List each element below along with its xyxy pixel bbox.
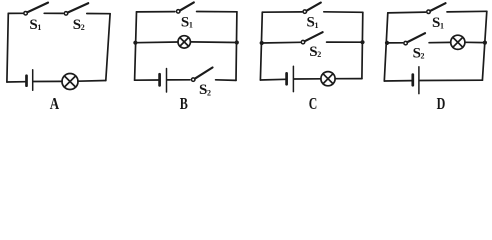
wire D middle-far-right [465, 41, 485, 43]
wire B left side [135, 12, 137, 80]
svg-text:S1: S1 [307, 15, 319, 31]
switch S1 (circuit B) pivot [176, 10, 180, 14]
node B mid-left junction [133, 41, 137, 45]
lamp L (circuit A) circle [62, 74, 78, 90]
svg-text:A: A [50, 94, 59, 112]
switch S1 (circuit D) blade [430, 3, 445, 11]
lamp L (circuit C) cross [323, 74, 333, 84]
lamp L (circuit B) circle [178, 36, 190, 48]
battery (circuit B) negative short plate [158, 74, 161, 85]
wire D bottom-left [384, 80, 411, 82]
wire C bottom-right [335, 78, 362, 80]
battery (circuit D) positive long plate [418, 67, 420, 94]
switch S2 (circuit A) pivot [64, 12, 68, 16]
svg-text:S2: S2 [199, 82, 211, 98]
wire A right side [106, 14, 110, 81]
battery (circuit C) negative short plate [285, 73, 288, 84]
wire A top-right [87, 13, 110, 15]
wire D middle-right [429, 41, 451, 43]
wire B bottom-right [216, 79, 236, 82]
wire A top-mid [44, 12, 63, 14]
lamp L (circuit D) cross [453, 37, 463, 47]
wire A top-left [8, 12, 23, 14]
svg-text:S2: S2 [309, 44, 321, 60]
svg-text:S2: S2 [73, 17, 85, 33]
svg-text:C: C [309, 94, 318, 112]
node D mid-right junction [483, 41, 487, 45]
wire D bottom-right [420, 79, 483, 81]
wire C middle-right [327, 41, 363, 43]
wire D top-left [388, 11, 426, 14]
lamp L (circuit C) circle [321, 72, 335, 86]
switch S2 (circuit D) blade [407, 33, 425, 42]
switch S2 (circuit B) blade [195, 68, 213, 79]
switch S2 (circuit D) pivot [404, 41, 408, 45]
lamp L (circuit B) cross [180, 38, 189, 47]
wire C middle-left [262, 41, 301, 44]
node B mid-right junction [235, 40, 239, 44]
battery (circuit B) positive long plate [166, 69, 168, 93]
switch S2 (circuit C) pivot [301, 40, 305, 44]
wire A bottom-left [7, 81, 26, 83]
svg-text:S1: S1 [181, 14, 193, 30]
switch S1 (circuit B) blade [180, 2, 194, 10]
wire D top-right [447, 10, 487, 13]
svg-text:B: B [180, 94, 188, 112]
battery (circuit C) positive long plate [292, 66, 294, 91]
wire B bottom-left [135, 79, 159, 81]
switch S1 (circuit A) blade [27, 3, 48, 13]
node C mid-right junction [360, 40, 364, 44]
switch S1 (circuit C) blade [307, 3, 321, 11]
battery (circuit A) negative short plate [25, 76, 28, 86]
switch S1 (circuit A) pivot [24, 11, 28, 15]
node C mid-left junction [260, 41, 264, 45]
switch S2 (circuit A) blade [68, 3, 88, 12]
switch S2 (circuit C) blade [305, 32, 323, 41]
switch S1 (circuit D) pivot [427, 10, 431, 14]
wire C bottom-left [260, 78, 285, 81]
battery (circuit A) positive long plate [32, 70, 34, 91]
wire D left side [384, 13, 388, 81]
wire A left side [7, 13, 8, 82]
wire D middle-left [387, 42, 403, 44]
wire C right side [361, 12, 364, 78]
svg-text:D: D [437, 94, 446, 112]
wire B middle-right [190, 41, 236, 44]
svg-text:S2: S2 [413, 45, 425, 61]
wire B top-left [137, 11, 175, 13]
lamp L (circuit D) circle [451, 35, 465, 49]
wire B middle-left [135, 41, 178, 44]
wire C top-right [324, 11, 363, 14]
wire B top-right [197, 11, 237, 13]
wire B bottom-mid [167, 79, 190, 81]
wire C top-left [262, 11, 302, 13]
switch S2 (circuit B) pivot [191, 78, 195, 82]
svg-text:S1: S1 [432, 15, 444, 31]
wire C bottom-mid [294, 78, 321, 80]
wire C left side [260, 12, 262, 80]
switch S1 (circuit C) pivot [303, 10, 307, 14]
wire A bottom-mid [34, 80, 63, 82]
lamp L (circuit A) cross [64, 76, 75, 87]
wire A bottom-right [78, 80, 106, 83]
node D mid-left junction [385, 41, 389, 45]
wire B right side [235, 12, 238, 81]
wire D right side [482, 11, 486, 80]
svg-text:S1: S1 [29, 17, 41, 33]
battery (circuit D) negative short plate [411, 75, 414, 86]
